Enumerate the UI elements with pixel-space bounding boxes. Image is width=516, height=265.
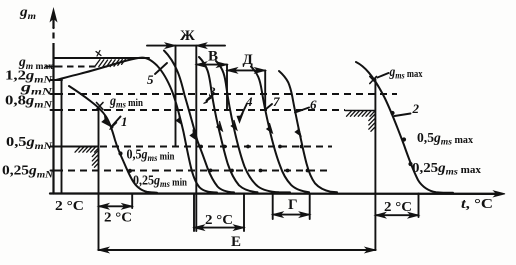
label 0,5gms min bbox=[127, 147, 175, 165]
main curve rise to peak and descent bbox=[56, 58, 217, 193]
direction arrow on curve1 bbox=[102, 116, 109, 126]
vertical at curve start x=61.5 bbox=[61, 80, 63, 194]
bracket E dim line bbox=[99, 249, 376, 251]
label 1 bbox=[121, 114, 128, 129]
axis label t,C bbox=[461, 196, 493, 211]
leader 1 bbox=[112, 117, 121, 127]
direction arrow on curve6 bbox=[295, 126, 301, 136]
label E bbox=[231, 234, 241, 250]
Zh right arrow bbox=[196, 43, 206, 48]
direction arrow on curve7 bbox=[267, 123, 273, 133]
dot 0,25 curve7 bbox=[286, 169, 290, 173]
svg-text:7: 7 bbox=[273, 94, 280, 109]
gm max dashed leader bbox=[45, 65, 97, 67]
label 3 bbox=[208, 84, 216, 99]
dot 0,5 curve7 bbox=[278, 145, 282, 149]
bracket G left vertical bbox=[272, 194, 274, 220]
dimension Zh line bbox=[147, 45, 225, 47]
hatch wedge under gm max bbox=[95, 60, 125, 68]
0,5 dashed continuation bbox=[100, 145, 332, 147]
label gms min bbox=[109, 93, 143, 111]
label 7 bbox=[273, 94, 280, 109]
leader 4 bbox=[241, 105, 247, 117]
level label 1,2gmN bbox=[5, 68, 53, 86]
Zh right vertical bbox=[195, 46, 197, 231]
svg-text:Ж: Ж bbox=[180, 28, 195, 44]
dot 0,25 curve6 bbox=[306, 169, 310, 173]
gm max solid level line bbox=[54, 57, 150, 59]
0,25 dashed level line bbox=[56, 169, 332, 171]
Zh left vertical bbox=[175, 46, 177, 146]
bracket4 right arrow bbox=[409, 213, 419, 218]
direction arrow on curve3 bbox=[217, 121, 223, 131]
level label 0,8gmN bbox=[5, 93, 53, 111]
V left arrow bbox=[196, 62, 206, 67]
D left arrow bbox=[227, 68, 237, 73]
label 6 bbox=[310, 97, 317, 112]
svg-text:В: В bbox=[208, 49, 218, 65]
svg-text:Д: Д bbox=[243, 52, 254, 68]
bracket2 right arrow bbox=[122, 204, 132, 209]
dot 0,5 curve3 bbox=[223, 145, 227, 149]
dot 0,5 curve6 bbox=[300, 145, 304, 149]
dot 0,25 on curve2 bbox=[408, 162, 412, 166]
x marker gms max bbox=[370, 77, 377, 84]
svg-text:Г: Г bbox=[288, 197, 298, 213]
V right arrow bbox=[217, 62, 227, 67]
bracket3 right arrow bbox=[234, 225, 244, 230]
bracket G left arrow bbox=[273, 212, 283, 217]
bracket3 right vertical bbox=[243, 194, 245, 232]
dot 0,25 curve5 bbox=[209, 169, 213, 173]
bracket2 right vertical bbox=[131, 194, 133, 209]
axis tick 1,2gmN bbox=[51, 79, 58, 81]
label 5 bbox=[147, 72, 154, 87]
dot 0,25 on curve1 bbox=[128, 169, 132, 173]
bracket4 dim line bbox=[375, 214, 418, 216]
leader gms max bbox=[378, 73, 389, 78]
gmN dashed level line bbox=[56, 93, 397, 95]
leader 7 bbox=[266, 104, 272, 109]
svg-text:2 °C: 2 °C bbox=[205, 212, 233, 227]
arrowhead 1 bbox=[110, 123, 118, 130]
y-axis arrowhead bbox=[50, 9, 56, 21]
dot 0,5 curve4 bbox=[246, 145, 250, 149]
leader 3 bbox=[207, 96, 212, 101]
level label 0,25gmN bbox=[2, 163, 54, 181]
leader 2 bbox=[395, 114, 411, 117]
dimension V line bbox=[196, 64, 227, 66]
bracket3 label 2C bbox=[205, 212, 233, 227]
dot 0,25 curve3 bbox=[230, 169, 234, 173]
label G bbox=[288, 197, 298, 213]
label D bbox=[243, 52, 254, 68]
dot 0,5 on curve2 bbox=[402, 137, 406, 141]
dot 0,5 on curve1 bbox=[118, 151, 122, 155]
vertical drop at gms min point bbox=[98, 108, 100, 250]
axis label gm bbox=[19, 4, 36, 22]
axis tick 0,8gmN bbox=[51, 109, 58, 111]
D right vertical bbox=[264, 70, 266, 107]
svg-text:2 °C: 2 °C bbox=[55, 198, 84, 213]
label 0,5gms max bbox=[417, 130, 473, 148]
hatch corner at 0,5 line bbox=[75, 147, 98, 167]
0,5gmN solid segment bbox=[54, 146, 99, 148]
curve 5 bbox=[164, 51, 234, 193]
x-axis bbox=[50, 192, 498, 195]
tick above gm max line bbox=[96, 51, 101, 57]
dot 0,5 curve5 bbox=[199, 145, 203, 149]
label 2 bbox=[412, 101, 420, 116]
curve 7 bbox=[251, 67, 309, 193]
svg-text:2 °C: 2 °C bbox=[384, 199, 412, 214]
axis tick 0,25gmN bbox=[51, 170, 58, 172]
axis tick gmN bbox=[51, 93, 58, 95]
direction arrow on curve5 bbox=[190, 130, 196, 140]
svg-text:t, °C: t, °C bbox=[461, 196, 493, 211]
bracket G right vertical bbox=[309, 194, 311, 220]
dimension D line bbox=[227, 69, 265, 71]
bracket G right arrow bbox=[300, 212, 310, 217]
direction arrow on curve4 bbox=[231, 120, 237, 130]
svg-text:5: 5 bbox=[147, 72, 154, 87]
hatch underline at 0,8 right bbox=[345, 110, 375, 112]
D right arrow bbox=[255, 68, 265, 73]
bracket2 left arrow bbox=[99, 204, 109, 209]
svg-text:2 °C: 2 °C bbox=[104, 210, 132, 225]
level label gm max bbox=[18, 54, 53, 72]
bracket4 right vertical bbox=[418, 194, 420, 218]
axis tick 0,5gmN bbox=[51, 146, 58, 148]
bracket E right arrow bbox=[365, 247, 375, 252]
bracket4 left arrow bbox=[375, 213, 385, 218]
label 4 bbox=[245, 94, 253, 109]
leader 6 bbox=[295, 108, 309, 113]
curve 1 bbox=[69, 86, 157, 193]
curve 3 bbox=[199, 57, 258, 192]
bracket2 label 2C bbox=[104, 210, 132, 225]
axis tick gm max bbox=[51, 66, 58, 68]
label Zh bbox=[180, 28, 195, 44]
hatch corner at 0,8 line right bbox=[347, 111, 375, 131]
label 0,25gms max bbox=[412, 160, 481, 178]
label V bbox=[208, 49, 218, 65]
label 0,25gms min bbox=[133, 173, 187, 191]
dot 0,25 curve4 bbox=[259, 169, 263, 173]
level label gmN bbox=[20, 80, 54, 98]
curve 4 bbox=[216, 61, 290, 192]
bracket E left arrow bbox=[99, 247, 109, 252]
x marker gms min bbox=[97, 103, 104, 110]
label gms max bbox=[389, 64, 423, 82]
arrowhead 4 bbox=[237, 113, 243, 123]
dot on curve2 at 2 bbox=[390, 111, 394, 115]
vertical drop at gms max point bbox=[374, 79, 376, 250]
y-axis bbox=[52, 49, 54, 194]
bracket4 label 2C bbox=[384, 199, 412, 214]
arrowhead 3 bbox=[204, 98, 213, 104]
level label 0,5gmN bbox=[6, 134, 53, 152]
V right vertical bbox=[226, 65, 228, 110]
svg-text:Е: Е bbox=[231, 234, 241, 250]
bracket3 left arrow bbox=[194, 225, 204, 230]
curve 2 bbox=[356, 62, 453, 193]
x-axis arrowhead bbox=[494, 191, 505, 197]
bracket3 left vertical bbox=[193, 194, 195, 232]
curve 6 bbox=[279, 71, 337, 192]
bracket2 dim line bbox=[99, 205, 133, 207]
leader 5 bbox=[155, 63, 167, 74]
svg-text:2: 2 bbox=[412, 101, 420, 116]
first 2C label bbox=[55, 198, 84, 213]
direction arrow on main curve bbox=[176, 115, 182, 125]
0,8gmN dashed level line bbox=[56, 109, 345, 111]
bracket G dim line bbox=[273, 214, 310, 216]
svg-text:6: 6 bbox=[310, 97, 317, 112]
Zh left arrow bbox=[166, 43, 176, 48]
bracket3 dim line bbox=[194, 227, 244, 229]
1,2gmN tick to curve start bbox=[54, 79, 63, 81]
svg-text:1: 1 bbox=[121, 114, 128, 129]
